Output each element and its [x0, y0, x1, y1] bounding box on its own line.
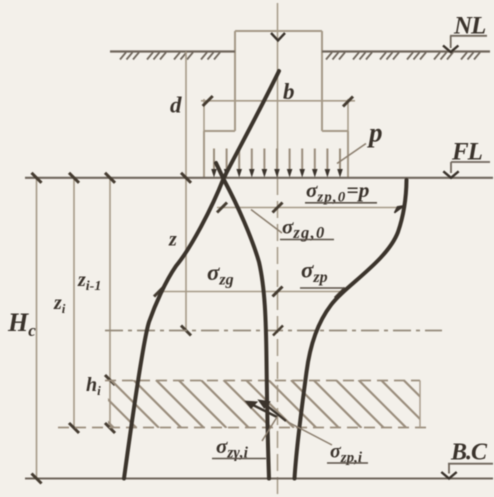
tick at centerline [273, 203, 283, 213]
sigma_zp additional stress curve [295, 180, 407, 479]
tick Hc bottom at B.C [32, 474, 42, 484]
arrow on centerline at column top [271, 33, 285, 41]
extension lines for b dimension [204, 99, 348, 131]
footing outline [204, 131, 348, 177]
Hc dimension line [36, 178, 38, 479]
tick b right [343, 97, 353, 107]
sigma_zg self-weight stress curve [124, 71, 279, 479]
svg-text:z: z [168, 229, 177, 251]
d / z dimension line [185, 52, 187, 331]
FL label [443, 139, 490, 178]
svg-text:p: p [367, 118, 383, 148]
NL ground line [110, 50, 490, 52]
tick zi-1 at layer top [105, 375, 115, 385]
tick z bottom at dash-dot level [181, 326, 191, 336]
tick zi bottom at layer bottom [69, 423, 79, 433]
B.C label [441, 440, 493, 479]
tick at sigma_zp curve mid [335, 288, 345, 298]
svg-text:b: b [283, 79, 295, 104]
sigma_zg / sigma_zp dimension line at mid depth [159, 291, 340, 293]
zi dimension line [73, 178, 75, 428]
FL foundation level line [25, 177, 493, 179]
svg-text:d: d [170, 93, 182, 118]
leader from sigma_zgamma,i label [262, 417, 277, 441]
zi-1 / hi dimension line [109, 178, 111, 428]
leader from sigma_zp,i label [286, 421, 332, 445]
sigma_zp0 dimension line [217, 207, 402, 209]
tick at centerline on dash-dot [273, 326, 283, 336]
tick hi bottom [105, 423, 115, 433]
b dimension line [201, 100, 355, 102]
dash-dot level line [105, 330, 442, 332]
column outline [235, 31, 322, 131]
layer right border [419, 381, 421, 428]
svg-text:B.C: B.C [450, 440, 488, 466]
arrowhead at sigma_zp curve [395, 206, 405, 213]
tick at centerline mid [273, 287, 283, 297]
sigma_zg,0 label and leader [251, 210, 282, 234]
distributed load arrows p under footing [214, 149, 340, 171]
NL label [443, 13, 487, 53]
dimension ticks on FL [32, 173, 192, 183]
crossing marker arrows near layer i [247, 401, 286, 421]
tick at sigma_zg curve [154, 287, 164, 297]
layer bottom dashed border [58, 427, 430, 429]
tick at sigma_zg0 left end [217, 203, 227, 213]
hatched soil layer i [66, 380, 452, 428]
B.C line (lower boundary of compressible strata) [25, 478, 493, 480]
layer top dashed border [105, 380, 420, 382]
centerline axis of foundation [277, 3, 279, 494]
tick b left [203, 96, 213, 106]
sigma_zgamma curve (stress relief of excavated soil) [216, 163, 269, 479]
ground hatch strokes under NL [120, 52, 480, 59]
